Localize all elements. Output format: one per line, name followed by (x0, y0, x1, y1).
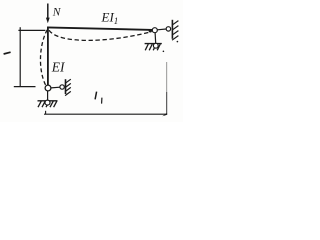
dashed buckled shape of column (40, 30, 47, 86)
label l (rotated) (4, 52, 11, 54)
right wall line (171, 20, 173, 39)
ground baseline at left support (38, 100, 58, 102)
force arrow N (46, 4, 50, 24)
right wall hatching (172, 21, 178, 41)
ground hatching at right support (145, 44, 160, 50)
speck right of ground hatch (163, 51, 165, 53)
dimension line l vertical (19, 27, 21, 87)
pin circle at right ground support (153, 43, 158, 48)
junction dot at beam right end (149, 29, 152, 32)
column EI (47, 27, 49, 86)
svg-text:N: N (52, 7, 62, 19)
hinge circle at left-bottom wall (60, 85, 64, 89)
dimension line l1 horizontal (44, 113, 167, 115)
dimension extension line top (l) (18, 29, 45, 31)
arrow foot at l1 right corner (162, 113, 167, 116)
horizontal link to left-bottom wall (51, 86, 60, 89)
horizontal link to right wall (157, 28, 166, 31)
dimension extension line right (l1) (166, 62, 168, 92)
left-bottom wall line (65, 79, 67, 94)
ground baseline at right support (145, 43, 162, 45)
vertical link below right hinge (154, 33, 157, 44)
tick at left end of l1 (45, 111, 47, 115)
hinge circle at right wall (166, 27, 170, 31)
hinge circle at beam right end (152, 28, 157, 33)
svg-text:EI: EI (51, 60, 66, 75)
beam EI1 (47, 27, 152, 30)
label l1 (95, 92, 102, 104)
dimension extension line bottom (l) (14, 86, 36, 88)
dashed buckled shape of beam (49, 30, 151, 40)
speck below right wall (177, 41, 179, 43)
vertical link below column hinge (47, 91, 49, 101)
left-bottom wall hatching (65, 79, 71, 95)
pin circle at left ground support (45, 100, 50, 105)
ground hatching at left support (38, 101, 57, 107)
hinge circle at column bottom (45, 85, 51, 91)
